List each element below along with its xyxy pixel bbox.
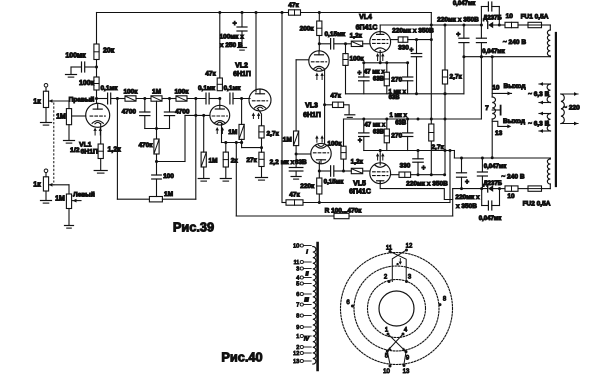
resistor 100к series 2: [176, 96, 187, 101]
wire splitter riser: [295, 60, 297, 131]
wire VL2 cathode: [258, 109, 262, 126]
toroid link 11-3: [390, 252, 406, 282]
svg-text:мк х: мк х: [281, 159, 295, 166]
svg-text:100к: 100к: [79, 80, 95, 87]
svg-text:63В: 63В: [373, 129, 385, 135]
wire wiper2 to R 1M: [54, 184, 69, 186]
wire: [136, 98, 151, 100]
ground: [198, 178, 209, 180]
input arrow левый: [73, 200, 82, 202]
svg-text:270: 270: [391, 76, 402, 83]
transformer core: [555, 33, 557, 186]
resistor 2,7к cathode VL2: [259, 126, 264, 138]
resistor 20к: [94, 44, 99, 60]
svg-text:330: 330: [398, 44, 409, 51]
node: [342, 170, 345, 173]
svg-text:12: 12: [406, 244, 413, 250]
wire B+ rail drop to R 20k: [96, 13, 98, 45]
svg-text:47 мк х: 47 мк х: [364, 69, 385, 75]
toroid link 5-10: [387, 351, 390, 365]
wire cathode network top rail: [364, 62, 408, 64]
wire pot top terminal: [44, 84, 48, 88]
svg-text:2к: 2к: [231, 157, 239, 164]
fuse FU1 0,5А: [528, 22, 542, 27]
resistor 2,7к in drop: [429, 124, 434, 141]
resistor 27к: [259, 152, 264, 166]
resistor 100к grid VL5: [341, 146, 346, 159]
svg-text:~ 220: ~ 220: [563, 105, 580, 112]
wire VL3a anode: [318, 44, 320, 51]
svg-text:1М: 1М: [209, 157, 218, 164]
svg-text:R 100...470к: R 100...470к: [325, 207, 363, 214]
wire 1,2k to ground: [100, 159, 102, 170]
wire VL1 cathode: [100, 124, 102, 145]
svg-text:Д237Б: Д237Б: [483, 15, 502, 21]
toroid link 4-5 crossing: [387, 334, 403, 351]
ground: [41, 122, 52, 124]
wire VL2a anode to 47к: [219, 99, 221, 106]
triode VL2a (second half 6Н1П): [210, 105, 230, 125]
resistor 1,2к grid stopper VL5: [351, 168, 362, 173]
resistor 47к common cathode: [325, 104, 333, 106]
svg-text:220к: 220к: [300, 183, 315, 190]
svg-text:1,2к: 1,2к: [351, 158, 364, 165]
svg-text:63В: 63В: [389, 95, 401, 101]
svg-text:+: +: [409, 47, 413, 54]
capacitor 47мк х 63В cathode: [363, 63, 365, 77]
tap 13 output wire: [492, 121, 509, 126]
wire VL3b anode: [318, 162, 320, 178]
svg-text:47 мк х: 47 мк х: [364, 122, 385, 128]
resistor 47к series B+ rail: [289, 10, 301, 15]
resistor 10 ch2: [505, 186, 518, 191]
wire VL5 anode path: [380, 182, 453, 200]
node 200k: [318, 11, 321, 14]
winding ~240В upper: [547, 30, 550, 56]
svg-text:1М: 1М: [152, 89, 161, 96]
svg-text:5: 5: [296, 282, 299, 288]
toroid terminal 4: [402, 333, 405, 336]
wire cap to ground: [71, 66, 81, 68]
svg-text:27к: 27к: [246, 157, 257, 164]
wire feedback rail: [236, 215, 334, 217]
capacitor 1мк х 63В ch2: [407, 119, 409, 133]
toroid inner winding ring: [368, 280, 426, 338]
svg-text:100: 100: [163, 173, 174, 180]
svg-text:13: 13: [293, 359, 299, 365]
capacitor 4700 left: [144, 99, 146, 113]
pentode VL4 6П41С: [370, 32, 391, 53]
svg-text:220мк х: 220мк х: [455, 194, 480, 201]
wire lower net top rail: [344, 118, 482, 120]
capacitor 0,1мк coupling 3: [229, 93, 231, 104]
wire VL3b grid: [296, 153, 311, 155]
svg-text:470к: 470к: [138, 142, 153, 149]
toroid terminal 9: [405, 350, 408, 353]
tap 11 terminal: [300, 260, 303, 263]
svg-text:4700: 4700: [122, 108, 137, 115]
capacitor 100: [156, 162, 158, 176]
svg-text:200к: 200к: [300, 26, 315, 33]
svg-text:7: 7: [485, 105, 489, 112]
capacitor 0,1мк coupling 1: [97, 98, 108, 100]
svg-text:х 350В: х 350В: [456, 203, 477, 210]
heater pins VL3b: [316, 137, 318, 142]
wire bypass right riser: [195, 99, 197, 200]
toroid terminal 2: [388, 280, 391, 283]
resistor 200к anode load VL3a: [317, 21, 322, 36]
toroid outer winding ring: [341, 253, 453, 365]
wire tone bottom: [145, 128, 170, 130]
svg-text:1М: 1М: [283, 136, 292, 143]
toroid link 1-9 crossing: [388, 334, 406, 352]
svg-text:1 мк х: 1 мк х: [389, 113, 407, 119]
svg-text:+: +: [422, 165, 426, 172]
svg-text:6Н1П: 6Н1П: [81, 148, 98, 155]
svg-text:220мк х 350В: 220мк х 350В: [406, 180, 448, 187]
wire VL2a cathode: [221, 123, 223, 143]
wire pot2 wiper arrow: [49, 184, 54, 186]
toroid link 12-2: [392, 250, 406, 282]
svg-text:270: 270: [391, 133, 402, 140]
svg-text:+: +: [233, 21, 237, 28]
toroid center circle: [379, 291, 414, 326]
heater pins VL2a: [216, 129, 218, 133]
svg-text:220мк х 350В: 220мк х 350В: [392, 28, 434, 35]
heater pins VL5: [377, 155, 379, 160]
wire VL5 grid: [363, 170, 370, 172]
svg-text:10: 10: [383, 369, 390, 375]
wire riser lower B+: [449, 151, 451, 203]
toroid link arrow: [399, 259, 401, 263]
tap 5 terminal: [300, 282, 303, 285]
svg-text:VL1: VL1: [79, 141, 92, 148]
svg-text:1М: 1М: [55, 195, 65, 202]
svg-text:1М: 1М: [56, 114, 66, 121]
resistor 330 screen VL4: [398, 37, 408, 42]
svg-text:+: +: [357, 70, 361, 77]
wire VL2 anode to rail: [255, 13, 257, 93]
capacitor 100мк decoupling: [81, 62, 83, 72]
svg-text:6Н1П: 6Н1П: [233, 71, 251, 78]
svg-text:0,1мк: 0,1мк: [223, 85, 241, 92]
node splitter grid: [295, 153, 298, 156]
triode VL1 1/2 6Н1П: [86, 103, 110, 127]
ground: [256, 177, 268, 179]
capacitor 1мк х 63В cathode: [407, 63, 409, 77]
svg-text:10: 10: [506, 13, 514, 20]
tap 7 wire: [492, 109, 500, 111]
wire 47k to B+ rail: [219, 13, 221, 79]
svg-text:1/2: 1/2: [70, 147, 80, 154]
potentiometer 1к left volume: [43, 177, 48, 191]
capacitor 47мк х 63В ch2: [363, 119, 365, 133]
resistor 100к series 1: [125, 96, 136, 101]
capacitor 0,047мк supply ch1: [480, 25, 482, 38]
resistor 1М VL2 grid leak: [239, 124, 244, 139]
resistor 1М grid leak VL2a: [201, 152, 206, 167]
resistor 270 ch2: [384, 129, 389, 143]
winding ~6,3В lower: [547, 114, 550, 131]
svg-text:1М: 1М: [228, 129, 237, 136]
wire to VL2 cathode node: [242, 147, 262, 149]
triode VL3a 6Н1П upper: [309, 51, 329, 71]
svg-text:~ 6,3 В: ~ 6,3 В: [528, 120, 549, 127]
wire common rail ch1: [346, 93, 464, 95]
svg-text:10: 10: [293, 244, 299, 250]
wire feedback right riser: [452, 189, 454, 216]
heater pins VL2: [252, 115, 254, 119]
svg-text:Выход: Выход: [503, 118, 526, 125]
heater pins VL1: [94, 130, 96, 135]
wire tone network bypass left drop: [116, 99, 118, 200]
toroid link 9-13: [404, 352, 406, 364]
svg-text:7: 7: [296, 303, 299, 309]
wire: [162, 98, 176, 100]
svg-text:III: III: [304, 298, 309, 304]
svg-text:47к: 47к: [289, 191, 300, 198]
wire riser to return ch2: [480, 57, 482, 119]
wire lower B+ rail: [282, 202, 286, 204]
wire 20k to 100k junction: [96, 60, 98, 78]
winding ~220 primary: [561, 94, 564, 124]
capacitor 0,047мк supply ch2: [481, 158, 483, 172]
svg-text:FU2 0,5А: FU2 0,5А: [523, 200, 551, 207]
tap 10 output wire: [492, 92, 511, 94]
resistor 1М grid leak left: [66, 194, 71, 209]
svg-text:220мк х 350В: 220мк х 350В: [437, 17, 479, 24]
ground: [220, 178, 231, 180]
svg-text:2,2: 2,2: [270, 159, 279, 166]
resistor 270 cathode: [384, 72, 389, 86]
svg-text:10: 10: [507, 193, 515, 200]
resistor R 100...470к feedback: [334, 213, 349, 218]
wire secondary bottom: [491, 119, 493, 158]
svg-text:VL2: VL2: [235, 63, 248, 70]
svg-text:2,7к: 2,7к: [431, 144, 444, 151]
node VL3a anode: [318, 42, 321, 45]
heater pins VL4: [377, 55, 379, 60]
capacitor 4700 right: [169, 99, 171, 113]
ground: [345, 114, 355, 116]
tap 13 terminal: [300, 359, 303, 362]
wire screen node: [408, 39, 432, 41]
svg-text:~ 6,3 В: ~ 6,3 В: [528, 91, 549, 98]
wire cathode row: [222, 142, 242, 144]
wire to winding: [542, 24, 551, 26]
svg-text:VL4: VL4: [359, 14, 372, 21]
wire grid leak: [241, 99, 243, 125]
svg-text:3: 3: [296, 267, 299, 273]
svg-text:0,047мк: 0,047мк: [482, 49, 504, 55]
wire feedback drop: [235, 141, 238, 144]
node cathode row: [224, 141, 227, 144]
svg-text:100к: 100к: [123, 89, 138, 96]
wire VL3a grid from splitter: [296, 59, 309, 61]
wire B+ drop right: [430, 13, 432, 175]
wire 100k to VL1 anode node: [96, 90, 98, 104]
potentiometer 1к right volume: [43, 91, 48, 107]
svg-text:Правый: Правый: [69, 95, 95, 103]
node: [344, 42, 347, 45]
tap 1 terminal: [300, 334, 303, 337]
ganged pot dotted link: [53, 103, 55, 182]
capacitor 220мк х 350В screen: [416, 40, 418, 54]
capacitor 220мк х 350В supply ch2: [461, 158, 463, 173]
svg-text:FU1 0,5А: FU1 0,5А: [521, 14, 549, 21]
wire to VL4 grid: [363, 43, 371, 45]
wire node to VL2a grid riser: [157, 161, 186, 163]
svg-text:63В: 63В: [395, 120, 407, 126]
heater pins VL3a: [316, 75, 318, 80]
tap 7 terminal bar: [500, 106, 502, 115]
toroid terminal 12: [405, 249, 408, 252]
svg-text:47к: 47к: [205, 71, 216, 78]
node VL1 anode junction: [95, 97, 98, 100]
wire VL5 cathode: [379, 151, 381, 165]
wire second drop 2,7k: [444, 25, 446, 175]
svg-text:~ 240 В: ~ 240 В: [501, 174, 525, 181]
capacitor 220мк х 350В screen ch2: [417, 151, 419, 159]
svg-text:0,15мк: 0,15мк: [324, 178, 345, 185]
wire B+ drop to lower channel: [281, 11, 284, 14]
svg-text:1М: 1М: [164, 191, 173, 198]
capacitor 100мк х 250В supply: [241, 13, 243, 28]
toroid middle winding ring: [354, 266, 439, 351]
toroid terminal 3: [405, 280, 408, 283]
svg-text:100к: 100к: [174, 89, 189, 96]
potentiometer 470к tone: [154, 139, 159, 154]
svg-text:12: 12: [293, 351, 299, 357]
wire VL4 screen: [391, 39, 399, 41]
capacitor 2,2мк х 63В: [295, 154, 297, 168]
wire pot2 top terminal: [44, 169, 48, 173]
diode Д237Б VD1: [487, 22, 489, 29]
svg-text:100мк: 100мк: [65, 52, 86, 59]
svg-text:8: 8: [296, 314, 299, 320]
svg-text:47к: 47к: [288, 2, 299, 9]
svg-text:Левый: Левый: [73, 190, 95, 198]
svg-text:100к: 100к: [350, 56, 365, 63]
toroid terminal 5: [386, 350, 389, 353]
ground: [238, 47, 247, 49]
svg-text:1к: 1к: [33, 182, 41, 189]
resistor 47к anode load: [217, 78, 222, 91]
wire VL4 anode row: [379, 25, 381, 32]
svg-text:Рис.39: Рис.39: [173, 220, 214, 235]
svg-text:1,2к: 1,2к: [108, 146, 122, 153]
pentode VL5 6П41С: [370, 163, 391, 184]
wire pot2 to ground: [45, 191, 47, 200]
resistor 47к lower B+: [286, 200, 303, 205]
wire bypass bottom right: [162, 198, 195, 200]
wire secondary feed: [491, 57, 493, 97]
svg-text:1к: 1к: [33, 99, 41, 106]
ground: [41, 200, 52, 202]
svg-text:+: +: [358, 138, 362, 145]
svg-text:0,047мк: 0,047мк: [484, 164, 506, 170]
svg-text:Выход: Выход: [503, 83, 526, 90]
ground: [94, 170, 107, 172]
winding ~6,3В upper: [547, 84, 550, 103]
toroid terminal 13: [403, 364, 406, 367]
svg-text:11: 11: [294, 260, 300, 266]
svg-text:Рис.40: Рис.40: [221, 350, 262, 365]
resistor 100к grid VL4: [343, 54, 348, 66]
wire VL5 screen: [391, 174, 399, 176]
svg-text:~ 240 В: ~ 240 В: [503, 39, 527, 46]
triode VL3b 6Н1П lower: [311, 143, 331, 163]
wire 1M to ground: [203, 115, 205, 152]
svg-text:II: II: [305, 272, 309, 278]
tap 9 terminal: [300, 325, 303, 328]
node VL2 grid: [240, 97, 243, 100]
capacitor 0,15мк coupling VL5: [319, 170, 330, 172]
resistor 100к anode load VL1: [94, 77, 99, 90]
wire lower rectifier row: [453, 188, 488, 190]
wire VL1 grid: [72, 115, 86, 117]
resistor 1М bottom: [149, 197, 162, 202]
svg-text:+: +: [456, 32, 460, 39]
svg-text:1,2к: 1,2к: [350, 32, 363, 39]
wire screen node ch2: [411, 174, 445, 176]
svg-text:0,15мк: 0,15мк: [324, 31, 345, 38]
svg-text:330: 330: [400, 162, 411, 169]
svg-text:VL3: VL3: [305, 103, 318, 110]
fuse FU2 0,5А: [528, 186, 542, 191]
wire VL2a grid: [185, 114, 210, 116]
tap 6 terminal: [300, 292, 303, 295]
wire bypass bottom left: [117, 198, 149, 200]
resistor 330 screen VL5: [399, 172, 411, 177]
diode Д237Б VD2: [487, 185, 489, 192]
svg-text:0,1мк: 0,1мк: [198, 85, 216, 92]
svg-text:2,7к: 2,7к: [450, 74, 463, 81]
wire lower net bottom rail: [364, 150, 455, 152]
ground: [64, 140, 75, 142]
ground: [291, 176, 301, 178]
svg-text:+: +: [465, 179, 469, 186]
wire: [187, 98, 206, 100]
svg-text:Д237Б: Д237Б: [483, 181, 502, 187]
wire B+ top rail: [97, 12, 289, 14]
resistor 1,2к cathode VL1: [98, 144, 103, 159]
node VL2a anode: [218, 97, 221, 100]
tap 12 terminal: [300, 351, 303, 354]
toroid terminal 8: [439, 303, 442, 306]
resistor 220к anode load VL3b: [317, 178, 322, 194]
svg-text:100к: 100к: [327, 140, 342, 147]
toroid terminal 1: [387, 333, 390, 336]
svg-text:11: 11: [386, 246, 393, 252]
wire ch2 supply top: [549, 158, 551, 159]
svg-text:6П41С: 6П41С: [349, 189, 371, 196]
wire 47k to ground: [344, 105, 350, 114]
wire VL4 cathode: [379, 51, 381, 63]
capacitor 0,15мк coupling VL4: [319, 43, 330, 45]
svg-text:63В: 63В: [373, 77, 385, 83]
wire 470k to node: [156, 154, 158, 162]
capacitor 220мк х 350В supply ch1: [463, 25, 465, 38]
capacitor 0,047мк across diode VD2: [481, 189, 483, 206]
tap 8 terminal: [300, 314, 303, 317]
svg-text:6П41С: 6П41С: [356, 25, 378, 32]
wire: [518, 24, 528, 26]
resistor 1М series: [151, 96, 162, 101]
resistor 1,2к grid stopper VL4: [351, 41, 362, 46]
svg-text:VL5: VL5: [353, 181, 366, 188]
toroid terminal 6: [351, 305, 354, 308]
